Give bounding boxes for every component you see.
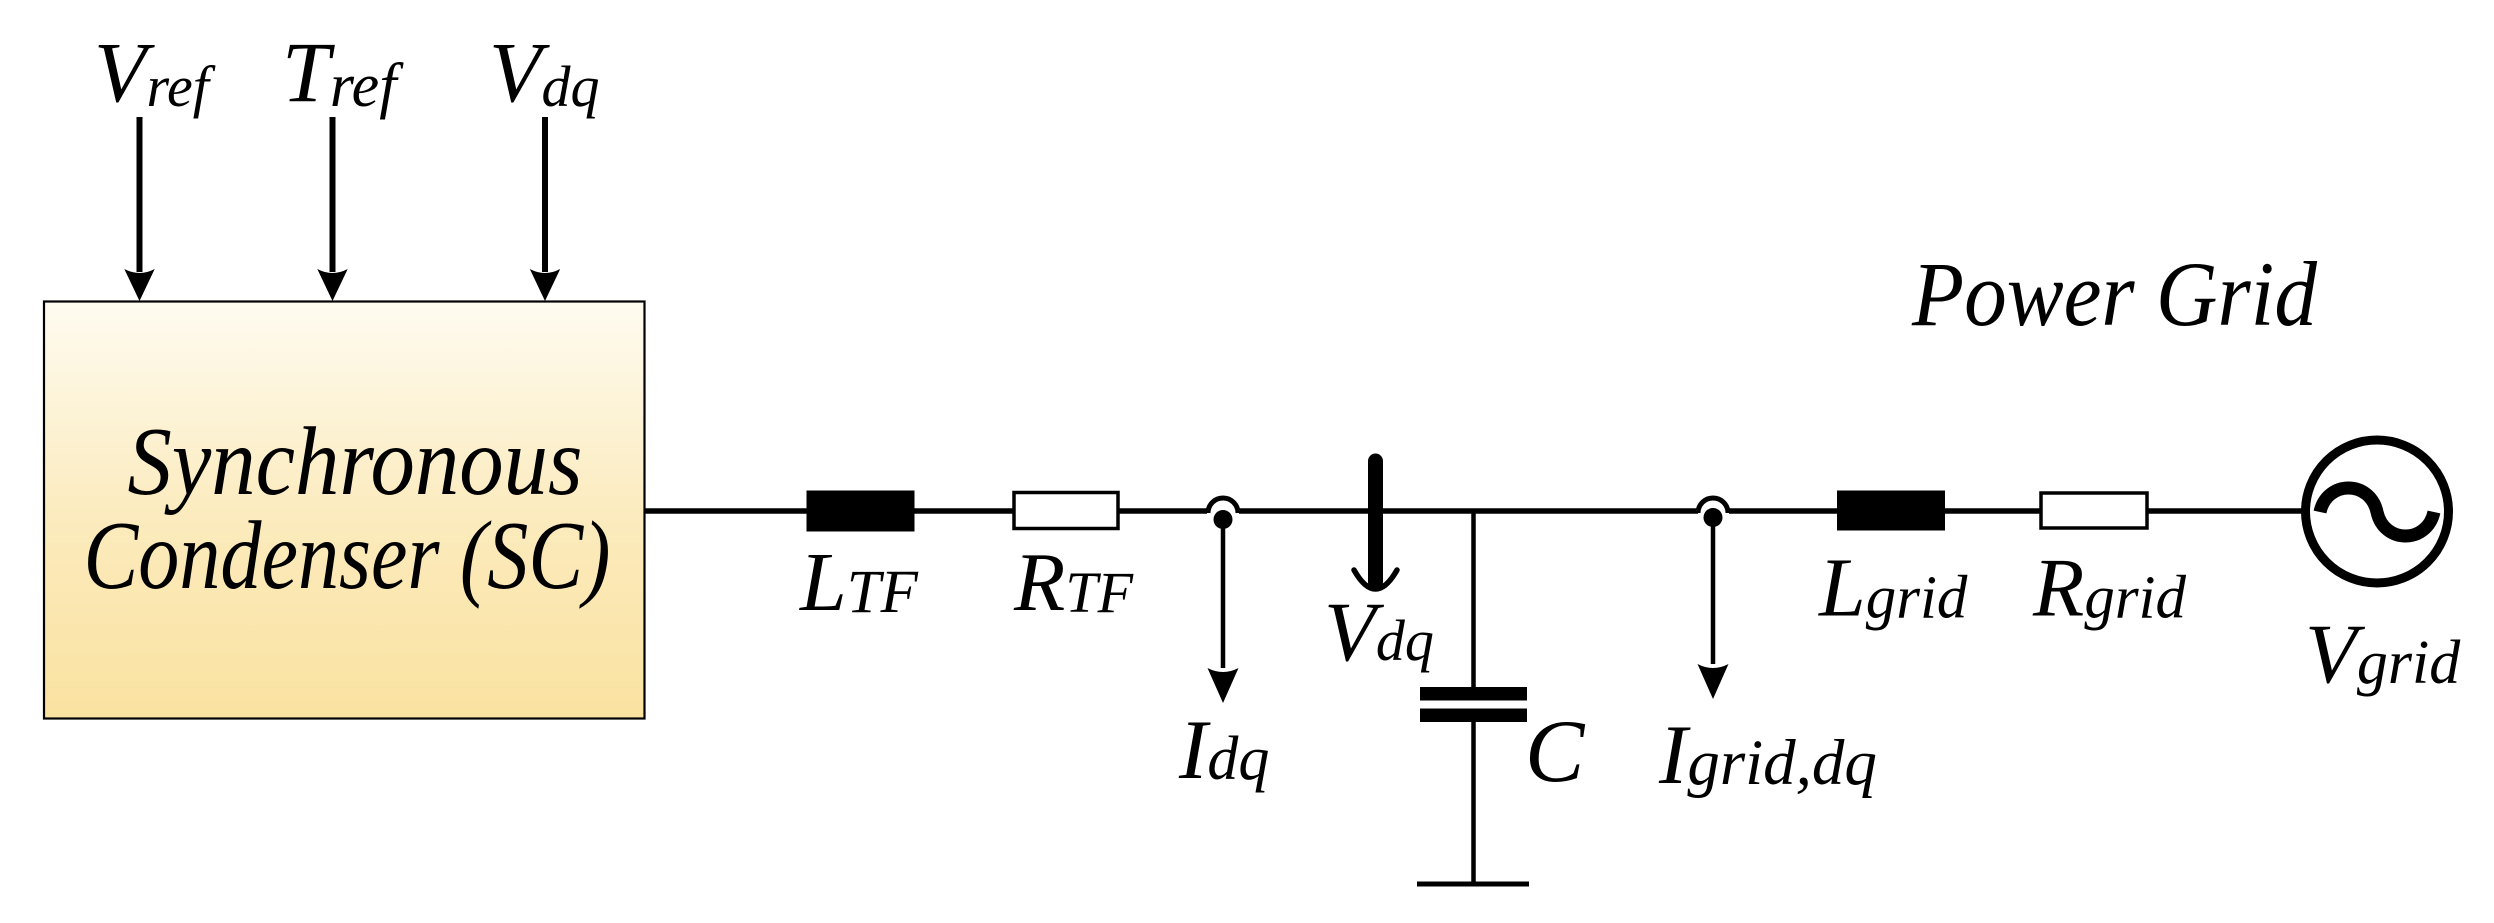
svg-text:Synchronous: Synchronous — [128, 408, 583, 515]
wire RTF to node Idq — [1118, 508, 1207, 514]
input arrow Tref — [317, 117, 347, 301]
resistor RTF — [1013, 493, 1134, 630]
svg-text:C: C — [1525, 703, 1586, 801]
wire Rgrid to Vgrid source — [2147, 508, 2305, 514]
svg-text:Power Grid: Power Grid — [1911, 243, 2318, 345]
label Power Grid — [1911, 243, 2318, 345]
svg-text:Vgrid: Vgrid — [2305, 607, 2461, 701]
wire node Igrid to Lgrid — [1729, 508, 1839, 514]
capacitor C — [1420, 687, 1586, 801]
svg-text:LTF: LTF — [799, 536, 919, 629]
svg-text:Vref: Vref — [94, 24, 216, 120]
svg-text:RTF: RTF — [1013, 536, 1134, 629]
wire hop over node Igrid — [1698, 498, 1728, 513]
svg-text:Vdq: Vdq — [489, 24, 600, 120]
resistor Rgrid — [2032, 493, 2186, 635]
input arrow Vref — [124, 117, 154, 301]
svg-text:Rgrid: Rgrid — [2032, 542, 2186, 635]
node Igrid measurement point — [1658, 508, 1877, 802]
inductor LTF — [799, 491, 919, 630]
wire node Idq to node Igrid — [1239, 508, 1698, 514]
wire LTF to RTF — [914, 508, 1016, 514]
svg-text:Igrid,dq: Igrid,dq — [1658, 708, 1877, 802]
svg-text:Condenser (SC): Condenser (SC) — [84, 502, 611, 609]
node Idq measurement point — [1178, 510, 1269, 797]
ground — [1417, 882, 1529, 887]
svg-text:Vdq: Vdq — [1324, 585, 1434, 679]
svg-text:Idq: Idq — [1178, 703, 1269, 797]
wire Lgrid to Rgrid — [1945, 508, 2043, 514]
capacitor C lead from wire — [1471, 511, 1476, 688]
capacitor C lead to ground — [1471, 722, 1476, 884]
input arrow Vdq — [530, 117, 560, 301]
block U1 Synchronous Condenser (SC) — [44, 302, 645, 719]
svg-text:Lgrid: Lgrid — [1818, 542, 1968, 635]
input label Vref — [94, 24, 216, 120]
input label Vdq (top) — [489, 24, 600, 120]
voltage probe arrow Vdq — [1324, 461, 1434, 679]
input label Tref — [282, 24, 404, 120]
ac source Vgrid — [2305, 440, 2461, 701]
wire hop over node Idq — [1208, 498, 1238, 513]
svg-text:Tref: Tref — [282, 24, 404, 120]
wire from SC to LTF — [645, 508, 808, 514]
inductor Lgrid — [1818, 491, 1968, 635]
